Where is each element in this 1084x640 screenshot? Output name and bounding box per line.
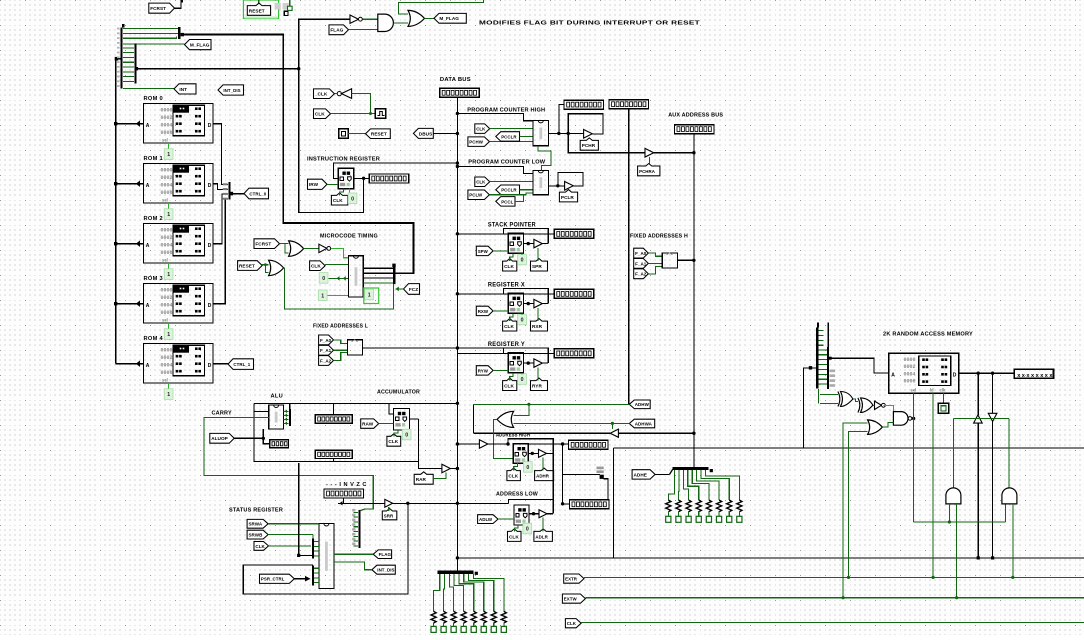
- wire opcode branch up to FLAG logic NOT gate: [299, 19, 350, 68]
- svg-text:DATA BUS: DATA BUS: [440, 77, 471, 83]
- pin label SRWB: [247, 530, 268, 539]
- STACK POINTER feedback loop: [504, 228, 549, 243]
- resistor pulldown R6 data: [481, 611, 486, 623]
- svg-text:ROM 2: ROM 2: [144, 216, 164, 222]
- wire ADHE splitter leg 5: [697, 470, 719, 500]
- svg-text:F_A2: F_A2: [635, 272, 647, 277]
- ground pin aux 2: [676, 516, 681, 522]
- splitter bar1 (13-way ROM address splitter): [120, 28, 122, 89]
- svg-text:clk: clk: [940, 388, 946, 393]
- REGISTER X feedback loop: [504, 288, 549, 303]
- pin label FLAG input top: [329, 25, 349, 35]
- wire ram address input: [803, 368, 816, 448]
- wire RESET to OR2: [262, 264, 268, 266]
- ground pin data 1: [431, 626, 436, 632]
- svg-text:PCCLR: PCCLR: [501, 188, 517, 193]
- svg-text:1: 1: [321, 293, 324, 299]
- svg-text:PCLW: PCLW: [469, 193, 483, 198]
- pin label SPR: [531, 259, 548, 271]
- wire bar1 to bar3 bit1: [123, 32, 178, 34]
- tunnel label PCCLR pc-low: [496, 185, 520, 195]
- pin label F_A0 low: [319, 335, 334, 345]
- svg-text:0004: 0004: [161, 123, 173, 129]
- svg-text:0000: 0000: [161, 288, 173, 294]
- svg-text:CLK: CLK: [504, 324, 514, 329]
- svg-text:0: 0: [351, 196, 354, 202]
- svg-text:PCCLR: PCCLR: [501, 134, 517, 139]
- pin label RYR: [531, 378, 548, 390]
- svg-text:RXW: RXW: [478, 309, 489, 314]
- led bar REGISTER X: [554, 289, 594, 298]
- wire address high Q: [528, 452, 553, 454]
- pin label FLAG status out: [373, 550, 391, 559]
- svg-text:sel: sel: [911, 388, 917, 393]
- wire F-L merge into register Y loop: [457, 347, 503, 349]
- svg-text:F_A0: F_A0: [320, 338, 332, 343]
- wire address low Q: [529, 513, 553, 515]
- wire AND1 output up: [952, 418, 954, 488]
- svg-text:F_A0: F_A0: [635, 251, 647, 256]
- svg-text:PCLR: PCLR: [561, 195, 575, 200]
- wire const1 to counter: [327, 294, 348, 296]
- wire OR2 second input: [265, 265, 268, 273]
- ROM 0 sel wire and constant 1: [168, 143, 170, 151]
- wire CLK line: [581, 621, 1084, 623]
- svg-text:0002: 0002: [161, 235, 173, 241]
- svg-text:_CLK: _CLK: [314, 92, 328, 97]
- svg-text:FCZ: FCZ: [409, 287, 418, 292]
- wire ADHE splitter leg 6: [701, 470, 729, 500]
- wire RAM data vertical 2: [992, 373, 994, 413]
- led bar REGISTER Y: [554, 349, 594, 358]
- data bus main vertical: [456, 97, 458, 571]
- wires bar1 to bar2 legs: [123, 47, 134, 49]
- long wire to RAM data area: [614, 447, 1084, 449]
- green carry chain between counters: [538, 146, 551, 171]
- AND gate clock gate 2: [1002, 488, 1017, 504]
- pin label M_FLAG left: [185, 40, 212, 50]
- wire status led to SRR buffer: [343, 498, 345, 504]
- address low loop: [509, 500, 554, 514]
- svg-text:0: 0: [521, 377, 524, 383]
- ground pin data 5: [471, 626, 476, 632]
- pin label RXW: [476, 306, 493, 315]
- svg-text:SRR: SRR: [384, 513, 394, 518]
- svg-text:RYW: RYW: [478, 368, 489, 373]
- pin label INT_DIS status out: [372, 565, 395, 574]
- wire CLK to pcl counter: [490, 181, 533, 183]
- wire led bar addr low stub: [563, 503, 570, 505]
- svg-text:ADHW: ADHW: [635, 402, 650, 407]
- wire EXTR line: [584, 576, 1084, 578]
- pin label SRR: [382, 509, 397, 520]
- svg-text:A: A: [146, 183, 150, 189]
- ground pin data 3: [451, 626, 456, 632]
- splitter combiner for CTRL_0: [228, 182, 230, 199]
- ROM 4 memory block: [144, 344, 214, 384]
- svg-text:RESET: RESET: [371, 132, 387, 137]
- wire OR out to register D: [494, 419, 514, 458]
- wire bar1 to INT: [123, 88, 174, 90]
- pin label CLK REGISTER X: [503, 319, 517, 331]
- wire splitter to RAM A: [829, 358, 888, 373]
- wire AND1 input 1: [948, 504, 950, 522]
- AND gate clock gate 1: [946, 488, 961, 504]
- svg-text:EXTW: EXTW: [564, 597, 578, 602]
- wire SPR enable stub: [537, 248, 539, 261]
- register STACK POINTER: [508, 233, 523, 253]
- ROM 3 memory block: [144, 284, 214, 324]
- status register component: [319, 524, 334, 589]
- svg-text:D: D: [208, 363, 212, 369]
- buffer PCLR tri-state: [565, 181, 574, 190]
- constant 0 address high: [523, 462, 532, 473]
- wire RXW to register D: [493, 310, 508, 312]
- wire NOT out to counter enable: [331, 248, 349, 257]
- svg-text:RXR: RXR: [532, 324, 543, 329]
- wire RAM sel down: [913, 393, 915, 418]
- wire bottom splitter leg 2: [449, 574, 453, 612]
- splitter bar ADHE aux address: [673, 467, 709, 470]
- resistor pulldown R6 aux: [716, 500, 721, 512]
- svg-text:CLK: CLK: [388, 439, 398, 444]
- OR gate microcode reset 1: [289, 241, 304, 256]
- svg-text:FLAG: FLAG: [379, 552, 392, 557]
- resistor pulldown R8 data: [501, 611, 506, 623]
- NAND gate ram select: [893, 412, 908, 426]
- wire sel bottom jog: [914, 521, 1006, 523]
- wire RAM data vertical 1: [977, 373, 979, 415]
- wire bottom splitter leg 6: [469, 574, 494, 612]
- ground pin data 4: [461, 626, 466, 632]
- pin label ADHWA: [629, 419, 654, 428]
- constant 1 microcode left: [318, 290, 327, 301]
- svg-text:CLK: CLK: [504, 383, 514, 388]
- wire ADHWA enable stub: [611, 423, 613, 429]
- pin label RAR: [414, 472, 433, 484]
- svg-text:SPR: SPR: [532, 264, 542, 269]
- svg-text:CTRL_1: CTRL_1: [233, 362, 250, 367]
- wire ADHE splitter leg 2: [683, 470, 688, 500]
- resistor pulldown R3 data: [451, 611, 456, 623]
- wires splitter to XOR1: [820, 393, 838, 395]
- svg-text:0006: 0006: [161, 130, 173, 136]
- tunnel label PCCLR pc-high: [496, 132, 520, 142]
- bus stem into bottom splitter: [456, 571, 458, 572]
- svg-text:CLK: CLK: [509, 534, 519, 539]
- constant 0 pin small: [284, 11, 288, 15]
- pin label EXTW: [562, 594, 585, 603]
- ROM 1 memory block: [144, 164, 214, 204]
- wire buffer to aux bus: [618, 432, 694, 434]
- register REGISTER Y: [508, 353, 523, 373]
- buffer PCHR tri-state: [584, 129, 593, 138]
- svg-text:D: D: [953, 372, 957, 378]
- splitter bar B status control: [312, 565, 314, 585]
- wire ROM 1 address stub: [116, 183, 144, 185]
- wire OR1 second input stub: [285, 244, 289, 253]
- wire RXR enable stub: [537, 308, 539, 321]
- wire bus to REGISTER Y loop: [457, 352, 554, 354]
- svg-text:RAW: RAW: [362, 422, 374, 427]
- inverter facing left for _CLK: [337, 92, 341, 96]
- bottom data splitter bar: [438, 571, 474, 574]
- wire STACK POINTER Q out: [524, 243, 549, 245]
- green control net horizontal: [953, 417, 1008, 419]
- pin label RYW: [476, 366, 493, 375]
- resistor pulldown R1 aux: [666, 500, 671, 512]
- svg-text:ld: ld: [930, 388, 934, 393]
- resistor pulldown R2 aux: [676, 500, 681, 512]
- resistor pulldown R4 data: [461, 611, 466, 623]
- wire bus to address high register: [457, 443, 508, 445]
- splitter bar2 (8-bit opcode splitter): [134, 47, 136, 84]
- long wire bottom data bus: [457, 557, 1084, 559]
- svg-text:FIXED ADDRESSES H: FIXED ADDRESSES H: [630, 234, 688, 240]
- pin label CLK STACK POINTER: [503, 259, 517, 271]
- svg-text:CLK: CLK: [508, 474, 518, 479]
- constant 0 green at IR: [348, 193, 357, 204]
- wire CLK stub STACK POINTER: [510, 253, 513, 261]
- svg-text:0004: 0004: [161, 243, 173, 249]
- wire pcl out: [549, 185, 565, 187]
- led bar second top: [609, 100, 649, 109]
- svg-text:CLK: CLK: [315, 112, 325, 117]
- green pin stub: [289, 0, 291, 6]
- led bar ALU result: [315, 450, 352, 458]
- pin label F_A0 high: [634, 248, 649, 258]
- pin label CLK address high: [507, 468, 521, 481]
- pin label CTRL_0: [244, 188, 269, 199]
- pin label IRW: [308, 179, 328, 189]
- svg-text:0: 0: [526, 465, 529, 471]
- svg-text:sel: sel: [162, 197, 168, 202]
- pin label ADHR: [535, 468, 554, 481]
- svg-text:PCHW: PCHW: [469, 140, 483, 145]
- combiner fixed addresses H: [662, 253, 677, 268]
- wire bottom splitter leg 4: [459, 574, 474, 612]
- buffer address high write inline: [479, 440, 487, 448]
- pin label RESET microcode: [238, 261, 263, 271]
- counter CTR4 microcode: [349, 256, 364, 297]
- wire ROM2 D to combiner: [213, 194, 228, 244]
- wire bottom splitter leg 3: [454, 574, 464, 612]
- svg-text:0006: 0006: [904, 379, 916, 385]
- wire pchr loop: [568, 114, 603, 134]
- wire reset pin to label: [348, 133, 365, 135]
- ground pin data 2: [441, 626, 446, 632]
- svg-text:ADHE: ADHE: [634, 472, 647, 477]
- resistor pulldown R5 data: [471, 611, 476, 623]
- svg-text:CTRL_0: CTRL_0: [249, 191, 266, 196]
- svg-text:A: A: [891, 372, 895, 378]
- pin label ADHW: [629, 400, 650, 409]
- svg-text:INSTRUCTION REGISTER: INSTRUCTION REGISTER: [307, 156, 381, 162]
- svg-text:ROM 1: ROM 1: [144, 156, 164, 162]
- svg-text:ADDRESS LOW: ADDRESS LOW: [496, 491, 539, 497]
- clock probe D box: [938, 403, 948, 413]
- wire CLK to IR clk pin: [340, 189, 344, 196]
- wire OR2 out down to feedback loop: [284, 268, 394, 309]
- pin label INT: [174, 84, 196, 94]
- wire ADHR enable stub: [542, 457, 544, 470]
- ground pin aux 3: [686, 516, 691, 522]
- wire RYW to register D: [493, 369, 508, 371]
- svg-text:0002: 0002: [161, 175, 173, 181]
- svg-text:0006: 0006: [161, 190, 173, 196]
- OR gate microcode reset 2: [269, 260, 284, 275]
- pin label SPW: [476, 246, 493, 255]
- wire CLK to clock device: [331, 113, 376, 115]
- REGISTER Y feedback loop: [504, 348, 549, 363]
- svg-text:sel: sel: [162, 317, 168, 322]
- wire bottom splitter leg 1: [443, 574, 446, 612]
- svg-text:ALUOP: ALUOP: [211, 436, 228, 441]
- output pin square for RESET: [339, 129, 348, 139]
- wire pch to led bar 1: [559, 104, 564, 133]
- constant 0 accumulator: [402, 429, 411, 440]
- output display xxxxxxxx: [1014, 369, 1053, 378]
- counter PC LOW: [533, 170, 549, 194]
- led bar pc high: [564, 100, 604, 109]
- resistor pulldown R3 aux: [686, 500, 691, 512]
- register REGISTER X: [508, 293, 523, 313]
- wire EXTW up to OR: [843, 423, 868, 598]
- pin label CLK status: [254, 542, 269, 551]
- svg-text:F_A1: F_A1: [635, 261, 647, 266]
- svg-text:D: D: [208, 243, 212, 249]
- wire ADHE splitter leg 7: [706, 470, 740, 500]
- buffer data write up: [974, 415, 983, 423]
- wire OR1 out to NOT: [304, 247, 319, 249]
- wire led bar addr high stub: [563, 443, 569, 445]
- splitter bar R ram address: [827, 347, 829, 389]
- svg-text:INT_DIS: INT_DIS: [377, 568, 394, 573]
- ground pin aux 1: [666, 516, 671, 522]
- NOT gate select: [875, 401, 882, 409]
- ground pin aux 6: [716, 516, 721, 522]
- ALU component: [269, 405, 284, 429]
- pin label SRWA: [247, 519, 268, 528]
- buffer SPR tri-state: [534, 239, 542, 247]
- resistor pulldown R4 aux: [696, 500, 701, 512]
- buffer RAR tri-state: [442, 464, 450, 472]
- wire register top to led bar addr high: [528, 443, 568, 445]
- wire CLK status: [269, 545, 312, 547]
- svg-text:ROM 0: ROM 0: [144, 96, 164, 102]
- wire EXTW line: [585, 597, 1084, 599]
- wire SRR to data bus long: [392, 502, 509, 504]
- accumulator loop left and bottom: [254, 403, 418, 461]
- wire ADHE splitter leg 1: [677, 470, 679, 500]
- svg-text:SRWA: SRWA: [249, 522, 263, 527]
- NOT gate U-flag: [350, 15, 359, 23]
- wire ADHE splitter leg 0: [668, 470, 674, 500]
- pin label _CLK: [314, 89, 335, 99]
- pin label EXTR: [564, 574, 584, 583]
- wire acc Q to feedback: [409, 418, 418, 420]
- pin label CLK REGISTER Y: [503, 378, 517, 390]
- ROM 2 sel wire and constant 1: [168, 263, 170, 271]
- pin label ALUOP: [210, 433, 234, 443]
- pin label PCHRA: [638, 164, 660, 176]
- svg-text:STATUS REGISTER: STATUS REGISTER: [229, 508, 283, 514]
- svg-text:0002: 0002: [161, 355, 173, 361]
- svg-text:0006: 0006: [161, 370, 173, 376]
- svg-text:F_A1: F_A1: [320, 348, 332, 353]
- wire PCCLR to counter: [520, 135, 534, 137]
- selection ghost handles: [275, 3, 281, 9]
- svg-text:1: 1: [167, 152, 170, 158]
- wire PCHW to counter: [489, 141, 533, 143]
- svg-text:sel: sel: [162, 377, 168, 382]
- svg-text:RYR: RYR: [532, 383, 542, 388]
- register accumulator: [394, 409, 410, 430]
- wire CLK stub accumulator: [394, 430, 398, 436]
- accumulator loop top wire: [254, 402, 457, 404]
- wire FLAG to AND: [349, 29, 378, 31]
- svg-text:0004: 0004: [161, 303, 173, 309]
- buffer PCHRA tri-state: [645, 148, 654, 157]
- counter PC HIGH: [533, 120, 549, 145]
- wire FCRST to OR1: [280, 243, 289, 245]
- svg-text:PCCL: PCCL: [501, 199, 513, 204]
- pin label CLK microcode: [310, 261, 326, 271]
- svg-text:FCRST: FCRST: [150, 6, 166, 11]
- wire _CLK net: [334, 93, 337, 95]
- pin label F_A1 high: [634, 259, 649, 269]
- svg-text:PROGRAM COUNTER HIGH: PROGRAM COUNTER HIGH: [467, 108, 545, 114]
- led bar aux address: [674, 125, 714, 134]
- constant 0 REGISTER Y: [518, 374, 527, 385]
- svg-text:RAR: RAR: [416, 477, 427, 482]
- wire NOT to NAND bright: [884, 405, 894, 411]
- OR gate flag-modify: [408, 10, 425, 26]
- mini splitter address feedback: [600, 475, 604, 479]
- pin label PSR_CTRL: [260, 574, 295, 583]
- svg-text:sel: sel: [162, 137, 168, 142]
- svg-text:M_FLAG: M_FLAG: [190, 43, 210, 48]
- wire RAM D out: [959, 372, 1014, 374]
- pin label ADLR: [534, 529, 553, 542]
- svg-text:M_FLAG: M_FLAG: [439, 16, 459, 21]
- pin label M_FLAG output: [434, 13, 466, 23]
- wire combiner to CTRL_0: [233, 193, 244, 195]
- svg-text:CLK: CLK: [333, 198, 343, 203]
- wire ROM3 D to combiner: [213, 199, 228, 304]
- vertical led stub down: [562, 444, 564, 504]
- svg-text:1: 1: [167, 332, 170, 338]
- resistor pulldown R1 data: [431, 611, 436, 623]
- svg-text:0000: 0000: [904, 357, 916, 363]
- register IR: [338, 168, 354, 189]
- buffer RXR tri-state: [534, 299, 542, 307]
- wire combiner H to aux bus: [677, 259, 694, 261]
- input pin RESET (selected, green box): [243, 0, 278, 18]
- wire OR out to M_FLAG: [425, 17, 435, 19]
- constant 0 address low: [523, 523, 532, 534]
- ground pin aux 4: [696, 516, 701, 522]
- ground pin data 7: [491, 626, 496, 632]
- svg-text:REGISTER X: REGISTER X: [488, 282, 525, 288]
- led bar ALUOP 4bit: [270, 440, 289, 448]
- wire ALUOP to ALU and led: [234, 437, 263, 439]
- wire combiner L to data bus: [363, 347, 458, 349]
- wire SRWB to splitter A stem: [268, 534, 313, 536]
- resistor pulldown R5 aux: [706, 500, 711, 512]
- wire bottom splitter leg 7: [473, 574, 504, 612]
- ground pin aux 5: [706, 516, 711, 522]
